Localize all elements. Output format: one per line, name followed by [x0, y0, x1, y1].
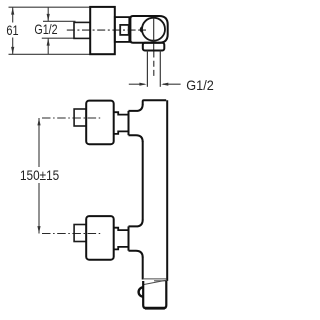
lower valve flange [128, 226, 130, 250]
mixer body [90, 7, 115, 54]
valve housing top right [130, 16, 167, 43]
extension line top of body (61 dim) [9, 6, 91, 8]
spout diagonal line [143, 280, 166, 284]
lower valve top fillet to pipe [129, 220, 143, 227]
lower inlet stub [74, 225, 86, 242]
svg-text:G1/2: G1/2 [186, 77, 214, 93]
centerline upper valve [42, 117, 102, 119]
dimension arrow left (outlet G1/2) [129, 83, 145, 85]
upper valve neck A [114, 112, 128, 134]
outlet thread line left [146, 51, 148, 87]
upper valve flange [128, 111, 130, 135]
upper valve body [86, 101, 114, 145]
riser pipe top edge [143, 100, 167, 105]
svg-text:G1/2: G1/2 [34, 21, 57, 37]
svg-text:150±15: 150±15 [20, 167, 59, 183]
spout knob left [139, 287, 144, 296]
outlet thread line right [159, 51, 161, 87]
riser pipe left edge between valves [142, 141, 144, 220]
neck between body and valve [115, 17, 130, 42]
lower valve neck A [114, 228, 128, 250]
arrowhead 61 top [11, 7, 14, 14]
small knob on circle left [141, 27, 143, 32]
spout bottom edge emphasis [145, 307, 165, 310]
centerline lower valve [42, 233, 102, 235]
arrowhead 150 top [37, 118, 40, 125]
dimension arrow right (outlet G1/2) [163, 83, 181, 85]
spout joint line [143, 278, 167, 280]
lower valve body [86, 216, 114, 260]
adjuster square in neck [120, 25, 129, 35]
wall union G1/2 [74, 22, 90, 38]
upper valve top fillet to pipe [129, 104, 143, 111]
extension line union bottom (G1/2 dim) [42, 37, 76, 39]
upper inlet stub [74, 109, 86, 126]
lower valve bottom fillet to pipe [129, 251, 143, 258]
arrowhead G1/2 down [47, 14, 50, 21]
outlet fitting under valve [143, 43, 165, 51]
dimension line G1/2 upper [47, 7, 49, 54]
arrowhead 150 bottom [37, 226, 40, 233]
spout body [143, 281, 166, 309]
vertical centerline in valve [153, 18, 155, 50]
arrowhead G1/2 up [47, 38, 50, 45]
upper valve bottom fillet to pipe [129, 135, 143, 142]
dimension line 61 [12, 7, 14, 54]
handle circle [142, 18, 165, 41]
riser pipe left edge below lower valve [142, 257, 144, 280]
outlet centerline dashed [153, 52, 155, 79]
spout joint line 2 [154, 280, 166, 282]
extension line bottom of body (61 dim) [9, 53, 91, 55]
svg-text:61: 61 [6, 22, 18, 38]
arrowhead 61 bottom [11, 47, 14, 54]
dimension line 150±15 [38, 118, 40, 234]
riser pipe right edge [166, 100, 168, 281]
extension line union top (G1/2 dim) [43, 20, 76, 22]
centerline horizontal top assembly [67, 29, 146, 31]
